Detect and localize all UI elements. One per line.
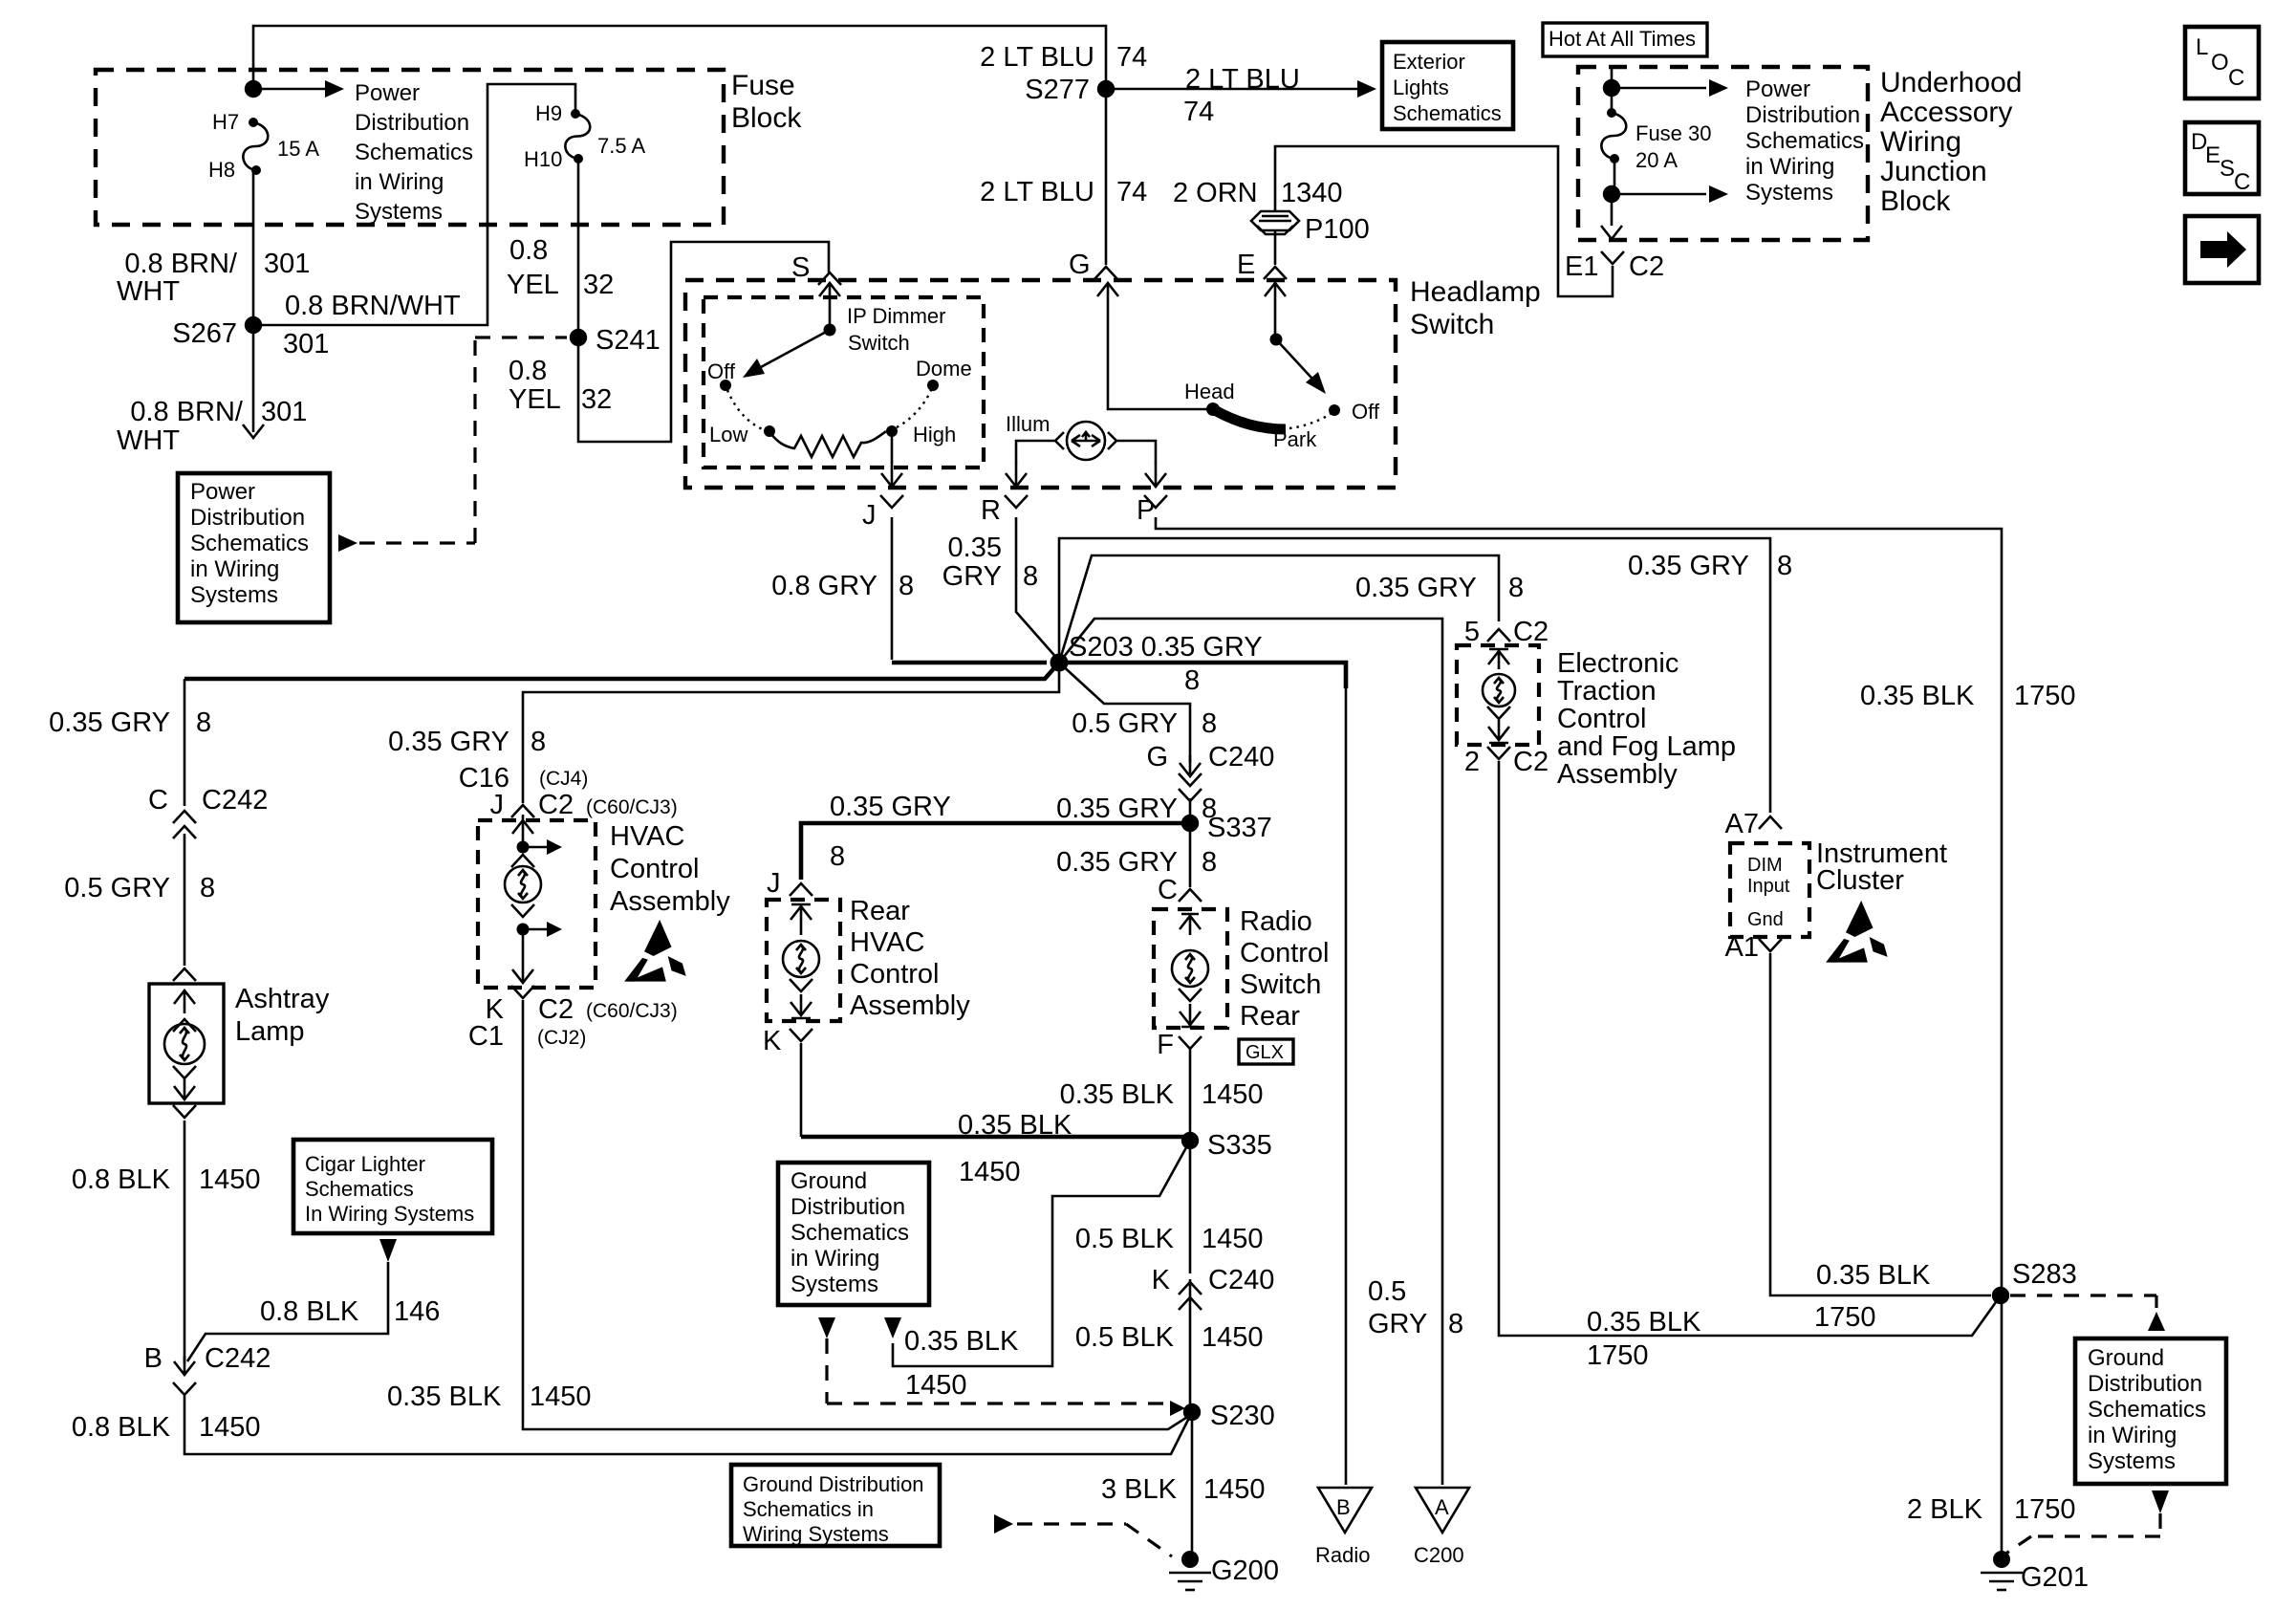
svg-text:C1: C1 — [468, 1021, 504, 1052]
svg-text:E: E — [1237, 250, 1255, 280]
wire S335 to K C240 — [1189, 1141, 1192, 1273]
svg-text:8: 8 — [531, 727, 546, 757]
svg-text:YEL: YEL — [507, 270, 559, 300]
F pin connector — [1179, 1036, 1202, 1049]
arrowhead — [1709, 79, 1728, 97]
rear hvac top arrow — [791, 904, 812, 935]
wire A1 to S283 — [1770, 953, 1991, 1295]
arrow wire power dist note 1 — [1612, 87, 1706, 90]
svg-text:Exterior: Exterior — [1393, 50, 1465, 74]
dashed wire gdr to G201 — [2004, 1513, 2160, 1555]
wire S203 diag to spine — [1059, 663, 1190, 763]
chevron below ashtray — [173, 1105, 196, 1118]
S pin arrow — [829, 283, 832, 308]
svg-text:Schematics: Schematics — [190, 531, 309, 556]
svg-text:B: B — [144, 1343, 162, 1374]
svg-text:0.35 BLK: 0.35 BLK — [1587, 1307, 1701, 1338]
svg-text:Ground: Ground — [791, 1168, 867, 1194]
svg-text:K: K — [1152, 1265, 1171, 1295]
svg-text:S203 0.35 GRY: S203 0.35 GRY — [1069, 632, 1263, 663]
svg-text:Cigar Lighter: Cigar Lighter — [305, 1152, 425, 1176]
contact Off (dimmer) — [720, 380, 731, 391]
hvac lamp — [505, 866, 541, 903]
contact High — [886, 425, 898, 437]
svg-text:in Wiring: in Wiring — [190, 556, 279, 582]
contact Dome — [927, 380, 939, 391]
wire P100 to E pin — [1274, 230, 1277, 265]
P arrow at box edge — [1155, 462, 1158, 487]
svg-text:E: E — [2205, 142, 2220, 168]
svg-text:F: F — [1157, 1030, 1174, 1060]
R pin connector — [1005, 495, 1028, 508]
svg-text:WHT: WHT — [117, 276, 180, 307]
underhood junction block dashed box — [1578, 67, 1868, 240]
etc bottom arrow — [1488, 719, 1509, 743]
headlamp arm — [1276, 339, 1322, 389]
svg-text:74: 74 — [1116, 42, 1147, 73]
wire rear hvac K to S335 — [801, 1135, 1190, 1140]
svg-text:S277: S277 — [1025, 75, 1090, 105]
svg-text:GRY: GRY — [942, 561, 1002, 592]
svg-text:Ground Distribution: Ground Distribution — [743, 1472, 924, 1496]
arrow down to E1 — [1611, 194, 1614, 226]
svg-text:Control: Control — [1557, 704, 1647, 734]
svg-text:2 LT BLU: 2 LT BLU — [1185, 64, 1300, 95]
svg-text:Control: Control — [610, 854, 700, 884]
svg-text:1750: 1750 — [2014, 681, 2076, 711]
svg-text:Systems: Systems — [355, 199, 443, 225]
splice S283 — [1992, 1287, 2009, 1304]
svg-text:Rear: Rear — [1240, 1001, 1300, 1032]
svg-text:Switch: Switch — [1240, 969, 1321, 1000]
svg-text:K: K — [763, 1026, 782, 1056]
wire S203 to ETC line — [1059, 555, 1499, 663]
wire C242 to ashtray — [184, 834, 186, 966]
svg-text:C200: C200 — [1414, 1543, 1464, 1567]
grommet P100 — [1251, 211, 1299, 230]
ashtray top pin arrow — [174, 990, 195, 1013]
svg-text:1450: 1450 — [199, 1412, 261, 1443]
svg-text:301: 301 — [283, 329, 329, 359]
C200 A triangle — [1416, 1488, 1469, 1533]
svg-text:Systems: Systems — [791, 1272, 878, 1297]
ground G200 symbol — [1169, 1572, 1211, 1575]
wire S337 left to rear hvac J — [801, 823, 1190, 880]
wire S335 to ground dist arrow — [893, 1141, 1190, 1366]
contact Off (headlamp) — [1329, 404, 1340, 416]
svg-text:S: S — [2220, 156, 2235, 182]
headlamp switch dashed box — [685, 280, 1396, 488]
svg-text:Radio: Radio — [1315, 1543, 1370, 1567]
svg-text:Ground: Ground — [2088, 1345, 2164, 1371]
wire R pin down to S203 — [1016, 517, 1059, 661]
J pin connector — [880, 495, 903, 508]
wire fuse30 feed — [1611, 69, 1614, 113]
wire S203 to C200 A line — [1059, 619, 1442, 1485]
splice S241 — [570, 329, 587, 346]
ground distribution box middle — [778, 1163, 929, 1305]
svg-text:S267: S267 — [172, 318, 237, 349]
svg-text:Electronic: Electronic — [1557, 648, 1679, 679]
dotted arc Off-Low — [727, 390, 765, 430]
ground G201 dot — [1993, 1551, 2010, 1568]
svg-text:in Wiring: in Wiring — [1745, 154, 1834, 180]
svg-text:8: 8 — [200, 873, 215, 903]
wire J to S203 thick — [892, 661, 1047, 665]
svg-text:C240: C240 — [1208, 742, 1274, 772]
svg-text:Distribution: Distribution — [190, 505, 305, 531]
svg-text:0.8: 0.8 — [509, 235, 548, 266]
svg-text:G: G — [1069, 250, 1091, 280]
E1 C2 connector — [1601, 251, 1624, 264]
hvac branch arrow right top — [523, 846, 547, 849]
svg-text:1450: 1450 — [1202, 1079, 1264, 1110]
svg-text:2: 2 — [1464, 747, 1480, 777]
svg-text:1340: 1340 — [1281, 178, 1343, 208]
svg-text:Control: Control — [1240, 938, 1330, 968]
wire illum left to R pin — [1016, 441, 1055, 463]
svg-text:1450: 1450 — [1202, 1224, 1264, 1254]
arrow wire to Power Distribution note — [253, 88, 325, 91]
svg-text:0.8 BLK: 0.8 BLK — [72, 1164, 171, 1195]
wire rear hvac K down — [800, 1043, 803, 1137]
svg-text:8: 8 — [196, 707, 211, 738]
svg-text:(CJ4): (CJ4) — [539, 768, 588, 790]
G pin arrow into headlamp box — [1107, 283, 1110, 308]
dashed wire gd1 to S230 — [827, 1338, 1168, 1403]
svg-text:G201: G201 — [2021, 1562, 2089, 1593]
svg-text:High: High — [913, 423, 956, 446]
svg-text:S337: S337 — [1207, 813, 1272, 843]
svg-text:Schematics: Schematics — [1745, 128, 1864, 154]
svg-text:HVAC: HVAC — [610, 821, 684, 852]
svg-text:Park: Park — [1273, 427, 1317, 451]
svg-text:C242: C242 — [205, 1343, 271, 1374]
splice S335 — [1181, 1132, 1199, 1149]
HVAC dashed box — [478, 820, 596, 988]
svg-text:Headlamp: Headlamp — [1410, 276, 1541, 308]
ashtray chevron top — [173, 1019, 196, 1032]
svg-text:S283: S283 — [2012, 1259, 2077, 1290]
svg-text:Lights: Lights — [1393, 76, 1449, 99]
A7 connector — [1759, 816, 1782, 829]
svg-text:(CJ2): (CJ2) — [537, 1027, 586, 1049]
svg-text:0.35 BLK: 0.35 BLK — [1860, 681, 1975, 711]
svg-text:S335: S335 — [1207, 1130, 1272, 1161]
svg-text:C: C — [2234, 169, 2250, 195]
hvac chevron2 — [511, 904, 534, 917]
wire J pin down — [891, 517, 894, 660]
svg-text:1450: 1450 — [905, 1370, 967, 1401]
ground G200 dot — [1181, 1551, 1199, 1568]
svg-text:0.35 BLK: 0.35 BLK — [904, 1326, 1019, 1357]
C C242 connector — [173, 811, 196, 823]
splice S337 — [1181, 815, 1199, 832]
svg-text:1450: 1450 — [959, 1157, 1021, 1187]
svg-text:301: 301 — [264, 249, 310, 279]
gd1 arrow down left — [818, 1317, 835, 1338]
svg-text:J: J — [490, 790, 505, 820]
dashed wire gdb to G200 — [1017, 1524, 1172, 1556]
svg-text:0.35 BLK: 0.35 BLK — [958, 1110, 1072, 1141]
Radio B triangle — [1318, 1488, 1372, 1533]
svg-text:Fuse 30: Fuse 30 — [1635, 121, 1712, 145]
svg-text:1450: 1450 — [1202, 1322, 1264, 1353]
svg-text:WHT: WHT — [117, 425, 180, 456]
wire E pin to switch pivot — [1274, 308, 1277, 335]
svg-text:Fuse: Fuse — [731, 70, 795, 101]
svg-text:1450: 1450 — [530, 1382, 592, 1412]
svg-text:R: R — [981, 495, 1001, 526]
svg-text:H8: H8 — [208, 158, 235, 182]
svg-text:(C60/CJ3): (C60/CJ3) — [586, 1000, 678, 1022]
svg-text:YEL: YEL — [509, 384, 561, 415]
svg-text:1450: 1450 — [199, 1164, 261, 1195]
wire radio B drop — [1345, 684, 1348, 1485]
splice S277 — [1097, 80, 1115, 98]
K C240 connector — [1179, 1282, 1202, 1295]
wire S203 up to A7 line — [1059, 538, 1770, 813]
wire fuse30 to lower junction — [1614, 159, 1616, 194]
wire ashtray to B C242 — [184, 1120, 186, 1363]
svg-text:1750: 1750 — [1814, 1302, 1876, 1333]
open arrow into power dist box — [252, 417, 255, 432]
svg-text:Accessory: Accessory — [1880, 97, 2012, 128]
svg-text:8: 8 — [830, 841, 845, 872]
IP dimmer switch dashed box — [704, 297, 984, 468]
svg-text:A7: A7 — [1725, 809, 1759, 839]
svg-text:0.35 BLK: 0.35 BLK — [1816, 1260, 1931, 1291]
svg-text:C: C — [2228, 65, 2244, 91]
svg-text:Assembly: Assembly — [610, 886, 730, 917]
svg-text:L: L — [2196, 34, 2208, 60]
splice S230 — [1183, 1403, 1201, 1421]
svg-text:C2: C2 — [1513, 617, 1549, 647]
svg-text:Low: Low — [709, 423, 747, 446]
J connector rear hvac — [790, 883, 812, 896]
svg-text:0.5: 0.5 — [1368, 1276, 1406, 1307]
svg-text:Schematics: Schematics — [305, 1177, 414, 1201]
ESD symbol hvac — [644, 920, 672, 956]
wire orange feed from E1C2 to P100 — [1275, 146, 1613, 296]
svg-text:301: 301 — [261, 397, 307, 427]
svg-text:0.8: 0.8 — [509, 356, 547, 386]
svg-text:32: 32 — [583, 270, 614, 300]
hot at all times box — [1543, 23, 1707, 56]
wire S267 branch right up to H10 fuse — [253, 84, 575, 325]
svg-text:Gnd: Gnd — [1747, 909, 1784, 930]
wire top feed from H7 up and across to S277 drop — [253, 26, 1106, 89]
svg-text:in Wiring: in Wiring — [791, 1246, 879, 1272]
svg-text:A: A — [1435, 1495, 1449, 1519]
rear hvac dashed box — [767, 900, 840, 1021]
svg-text:G: G — [1146, 742, 1168, 772]
svg-text:C240: C240 — [1208, 1265, 1274, 1295]
svg-text:Assembly: Assembly — [850, 990, 970, 1021]
fuse block dashed box — [96, 70, 724, 225]
wiper arrowhead — [743, 359, 765, 378]
svg-text:Off: Off — [707, 359, 736, 383]
svg-text:Input: Input — [1747, 876, 1790, 897]
svg-text:Schematics: Schematics — [791, 1220, 909, 1246]
svg-text:74: 74 — [1183, 97, 1214, 127]
dimmer rheostat — [770, 431, 886, 457]
R arrow at box edge — [1015, 462, 1018, 487]
svg-text:in Wiring: in Wiring — [355, 169, 444, 195]
svg-text:Distribution: Distribution — [2088, 1371, 2202, 1397]
wire H10 down to S241 — [577, 159, 580, 337]
svg-text:0.35 GRY: 0.35 GRY — [1056, 794, 1178, 824]
svg-text:1450: 1450 — [1203, 1474, 1266, 1505]
svg-text:in Wiring: in Wiring — [2088, 1423, 2177, 1448]
hvac top junction — [517, 841, 530, 854]
svg-text:0.35 BLK: 0.35 BLK — [1060, 1079, 1175, 1110]
dotted arc High-Dome — [897, 390, 931, 427]
svg-text:0.5 GRY: 0.5 GRY — [1072, 708, 1178, 739]
E pin arrow into headlamp box — [1274, 283, 1277, 308]
svg-text:GLX: GLX — [1245, 1042, 1284, 1063]
wire H8 to S267 — [252, 170, 255, 325]
svg-text:C: C — [148, 785, 168, 816]
svg-text:0.35: 0.35 — [948, 533, 1002, 563]
radio control switch rear dashed box — [1154, 909, 1227, 1028]
arrow wire power dist note 2 — [1612, 193, 1706, 196]
svg-text:Wiring: Wiring — [1880, 126, 1961, 158]
svg-text:Block: Block — [1880, 185, 1951, 217]
exterior lights schematics box — [1382, 42, 1513, 129]
svg-text:8: 8 — [1184, 665, 1200, 696]
5 C2 connector — [1487, 629, 1510, 642]
radio ctl bottom arrow — [1180, 1004, 1201, 1027]
power distribution schematics box (left) — [178, 473, 330, 622]
svg-text:S230: S230 — [1210, 1401, 1275, 1431]
dimmer pivot — [824, 324, 836, 337]
wire cigar to B C242 — [187, 1262, 388, 1361]
svg-text:C2: C2 — [1629, 251, 1664, 282]
svg-text:0.35 GRY: 0.35 GRY — [830, 792, 951, 822]
svg-text:15 A: 15 A — [277, 137, 319, 161]
A1 connector — [1759, 939, 1782, 951]
B C242 connector — [173, 1382, 196, 1395]
svg-text:P: P — [1137, 495, 1155, 526]
etc chevron bottom — [1487, 707, 1510, 719]
svg-text:8: 8 — [1202, 708, 1217, 739]
hvac lower junction — [517, 924, 530, 936]
svg-text:8: 8 — [1202, 847, 1217, 878]
wire hvac top pin — [522, 815, 525, 847]
svg-text:8: 8 — [1508, 573, 1524, 603]
svg-text:0.8 BRN/: 0.8 BRN/ — [124, 249, 238, 279]
gdr arrow down — [2152, 1490, 2169, 1513]
contact Low — [764, 425, 775, 437]
svg-text:20 A: 20 A — [1635, 148, 1678, 172]
svg-text:Dome: Dome — [916, 357, 972, 381]
svg-text:Traction: Traction — [1557, 676, 1657, 707]
etc lamp — [1483, 674, 1515, 707]
svg-text:J: J — [767, 868, 781, 899]
svg-text:8: 8 — [1448, 1309, 1463, 1339]
svg-text:2 ORN: 2 ORN — [1173, 178, 1258, 208]
svg-text:C2: C2 — [1513, 747, 1549, 777]
svg-text:0.35 GRY: 0.35 GRY — [1056, 847, 1178, 878]
splice S267 — [245, 316, 262, 334]
svg-text:0.5 BLK: 0.5 BLK — [1075, 1224, 1175, 1254]
dimmer wiper arm — [748, 330, 830, 374]
P pin connector — [1144, 495, 1167, 508]
ground G201 symbol — [1981, 1572, 2023, 1575]
wire C240 to S337 — [1189, 798, 1192, 823]
svg-text:5: 5 — [1464, 617, 1480, 647]
hvac chevron — [511, 855, 534, 867]
svg-text:0.8 GRY: 0.8 GRY — [771, 571, 877, 601]
ground distribution box right — [2075, 1338, 2226, 1484]
svg-text:C2: C2 — [538, 994, 574, 1025]
svg-text:Switch: Switch — [848, 331, 910, 355]
svg-text:Ashtray: Ashtray — [235, 984, 330, 1014]
hvac branch arrow right bottom — [523, 928, 547, 931]
radio ctl bottom chevron — [1179, 989, 1202, 1001]
svg-text:8: 8 — [1777, 551, 1792, 581]
wire S267 down to power dist box — [252, 325, 255, 417]
svg-text:Schematics: Schematics — [2088, 1397, 2206, 1423]
svg-text:0.8 BLK: 0.8 BLK — [260, 1296, 359, 1327]
radio ctl lamp — [1172, 950, 1208, 987]
svg-text:2 LT BLU: 2 LT BLU — [980, 42, 1094, 73]
svg-text:C242: C242 — [202, 785, 268, 816]
svg-text:H9: H9 — [535, 101, 562, 125]
svg-text:J: J — [862, 500, 877, 531]
svg-text:8: 8 — [1023, 561, 1038, 592]
svg-text:In Wiring Systems: In Wiring Systems — [305, 1202, 474, 1226]
svg-text:Schematics: Schematics — [1393, 101, 1502, 125]
S pin connector — [818, 272, 841, 285]
svg-text:Power: Power — [355, 80, 420, 106]
G C240 connector — [1179, 789, 1202, 801]
svg-text:Systems: Systems — [1745, 180, 1833, 206]
dashed link from pd box to S241 — [338, 534, 357, 552]
svg-text:Distribution: Distribution — [791, 1194, 905, 1220]
svg-text:Systems: Systems — [190, 582, 278, 608]
arrow box — [2185, 216, 2259, 283]
hvac top arrow — [512, 820, 533, 834]
svg-text:Illum: Illum — [1006, 412, 1050, 436]
LOC box — [2185, 27, 2259, 98]
svg-text:Head: Head — [1184, 380, 1235, 403]
svg-text:IP Dimmer: IP Dimmer — [847, 304, 946, 328]
svg-text:74: 74 — [1116, 177, 1147, 207]
svg-text:and Fog Lamp: and Fog Lamp — [1557, 731, 1736, 762]
svg-text:Assembly: Assembly — [1557, 759, 1678, 790]
svg-text:3 BLK: 3 BLK — [1101, 1474, 1178, 1505]
svg-text:0.35 GRY: 0.35 GRY — [49, 707, 170, 738]
arrowhead — [1709, 185, 1728, 203]
svg-text:P100: P100 — [1305, 214, 1370, 245]
svg-text:H10: H10 — [524, 147, 562, 171]
ashtray lamp — [164, 1024, 205, 1064]
wire hvac K down to S230 — [523, 1000, 1192, 1429]
svg-text:Underhood: Underhood — [1880, 67, 2022, 98]
junction above fuse 30 — [1603, 79, 1620, 97]
wire G pin to Head contact — [1108, 308, 1213, 409]
dashed arc Park to Off — [1289, 413, 1332, 428]
svg-text:Systems: Systems — [2088, 1448, 2176, 1474]
K connector rear hvac — [790, 1029, 812, 1041]
dashed wire S283 to ground box right — [2010, 1295, 2156, 1308]
wire S pin to dimmer pivot — [829, 308, 832, 330]
svg-text:DIM: DIM — [1747, 855, 1783, 876]
junction below fuse 30 — [1603, 185, 1620, 203]
headlamp pivot — [1270, 334, 1283, 346]
